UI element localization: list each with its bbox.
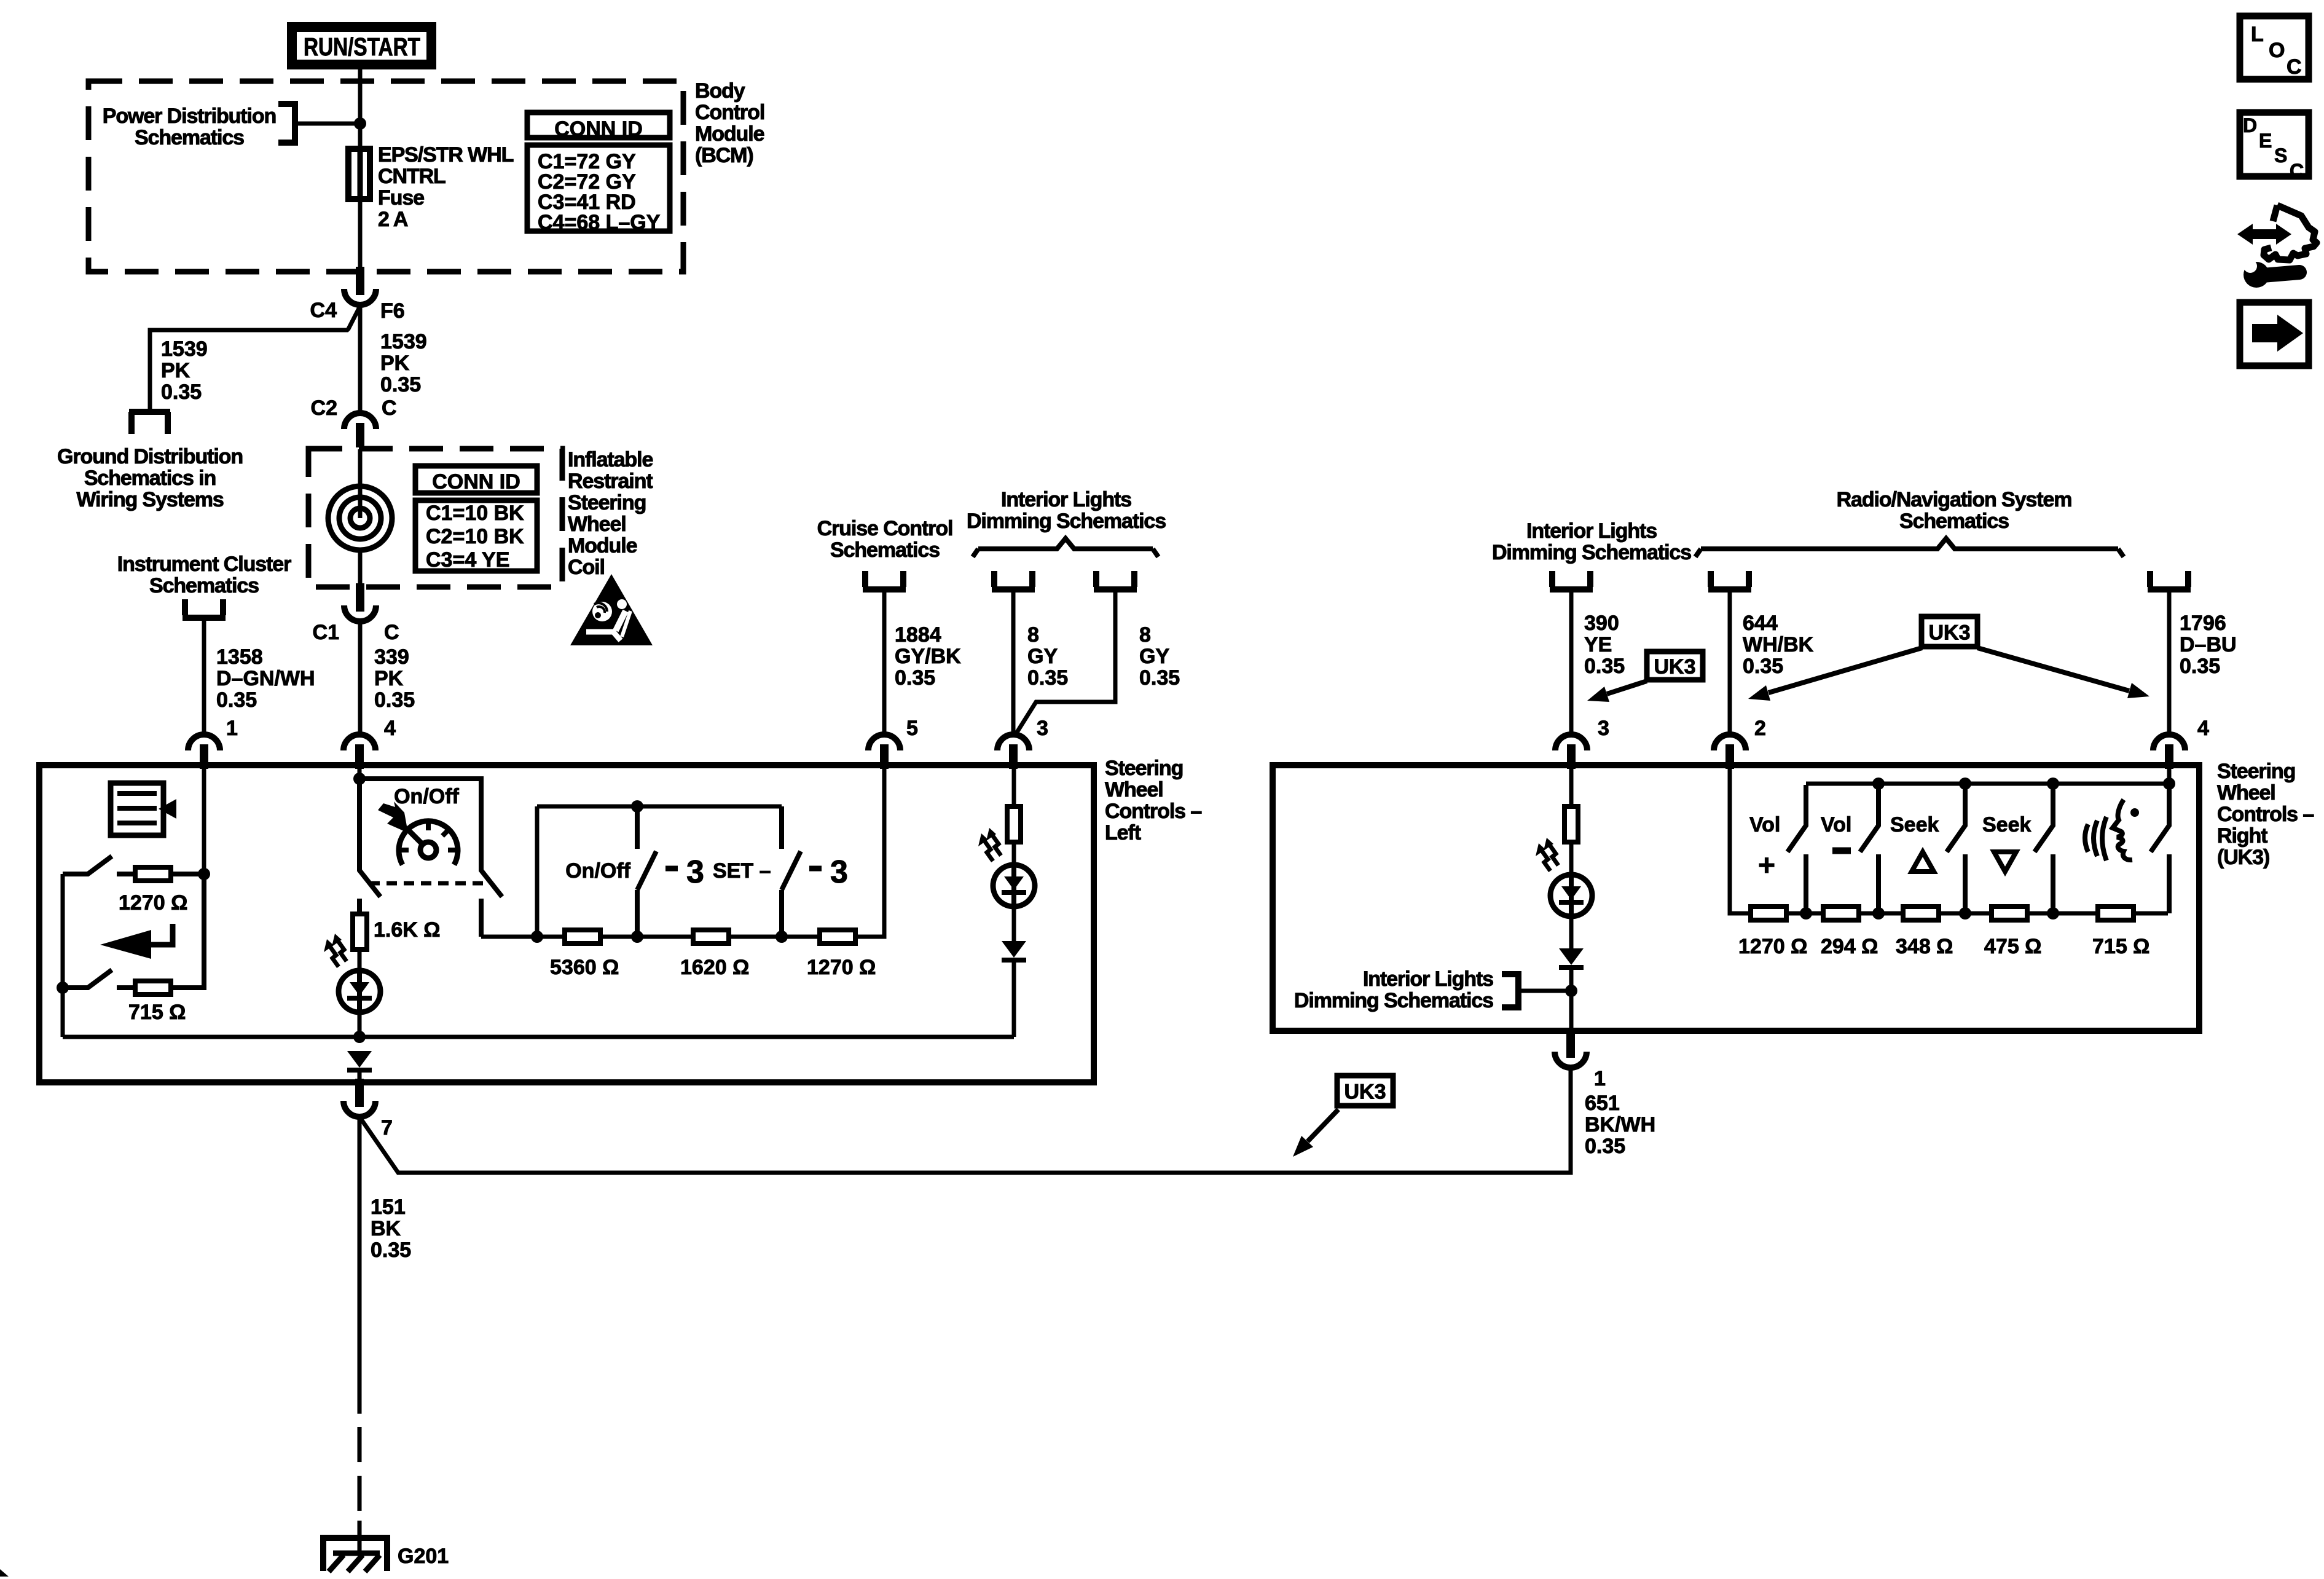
svg-text:0.35: 0.35 <box>1027 666 1068 690</box>
svg-text:(BCM): (BCM) <box>695 144 753 167</box>
resistor dimming (left box) <box>1007 806 1021 842</box>
fuse F6 EPS/STR WHL CNTRL 2A <box>348 149 370 199</box>
module box Body Control Module (BCM) dashed <box>88 81 683 272</box>
svg-text:GY/BK: GY/BK <box>895 645 961 668</box>
wire cruise bottom rail <box>481 935 562 939</box>
arrow UK3 to 651 wire <box>1308 1109 1338 1141</box>
wire connector C4 to connector C2 <box>358 305 363 415</box>
wire row to voice post <box>2136 912 2168 916</box>
junction dimming tap (right box) <box>1565 985 1577 997</box>
wire 8 GY (b) <box>1015 592 1115 735</box>
wire coil to connector C1 <box>358 550 363 589</box>
wire 5360 to 1620 <box>603 935 691 939</box>
icon diagnostic hand with arrows <box>2250 229 2279 239</box>
wire RUN/START feed into fuse <box>358 83 363 148</box>
module box Steering Wheel Controls - Right <box>1273 765 2199 1031</box>
svg-text:0.35: 0.35 <box>380 373 421 396</box>
switch assembly cruise On/Off gauge box <box>359 779 502 897</box>
connector pin 7 <box>343 1101 375 1117</box>
wire row 348-475 <box>1941 912 1990 916</box>
svg-text:CNTRL: CNTRL <box>378 165 446 188</box>
coil clockspring spiral <box>350 508 370 528</box>
wire gauge switch to resistor 1.6K <box>357 899 362 913</box>
svg-text:BK: BK <box>371 1217 401 1240</box>
wire pin3 internal (left box) <box>1012 768 1016 807</box>
wire row 1270-294 <box>1789 912 1821 916</box>
switch Vol- blade <box>1860 784 1878 852</box>
svg-text:Coil: Coil <box>568 556 605 579</box>
connector pin 4 left box <box>343 734 375 750</box>
diode (right box dimming) <box>1559 948 1584 965</box>
wire branch to ground distribution (1539 PK) <box>150 306 360 412</box>
svg-text:Wheel: Wheel <box>1105 778 1163 801</box>
svg-text:0.35: 0.35 <box>374 688 415 712</box>
svg-text:EPS/STR WHL: EPS/STR WHL <box>378 143 514 167</box>
LED backlight (right box) <box>1550 875 1592 916</box>
wire resistor row (right box) <box>1748 912 1789 916</box>
resistor 1270 ohm (right box) <box>1751 907 1786 920</box>
fork to Radio/Navigation (pin 4) <box>2150 571 2188 587</box>
svg-text:D: D <box>2243 114 2257 136</box>
svg-text:C2=10 BK: C2=10 BK <box>426 525 524 548</box>
wire switch to resistor 1270 <box>117 872 133 876</box>
svg-text:Schematics: Schematics <box>149 574 259 597</box>
callout UK3 (center) <box>1922 616 1977 647</box>
connector pin 1 right box <box>1555 1052 1587 1068</box>
wire 1796 D-BU <box>2167 592 2172 735</box>
svg-text:Schematics in: Schematics in <box>84 467 216 490</box>
wire internal bottom bus <box>63 1035 1014 1039</box>
junction pin4 branch to cruise circuit <box>353 773 366 785</box>
wire 1270 to pin5 riser <box>858 768 884 937</box>
svg-text:PK: PK <box>374 667 404 690</box>
icon LOC box <box>2240 16 2309 79</box>
left bus of page switches <box>61 874 65 1037</box>
junction Seek-up top <box>1959 778 1971 790</box>
junction row Vol+ <box>1800 907 1812 919</box>
wire gauge blade to bottom rail <box>479 899 484 937</box>
wire LED to junction <box>358 1012 362 1037</box>
wire resistor to LED (left box dimming) <box>1012 843 1016 867</box>
wire cruise loop left riser <box>535 806 540 937</box>
wire resistor 1.6K to LED <box>358 952 362 972</box>
svg-text:348 Ω: 348 Ω <box>1896 935 1953 958</box>
wire row 294-348 <box>1861 912 1901 916</box>
svg-text:C4=68 L–GY: C4=68 L–GY <box>538 211 661 234</box>
wire row 475-715 <box>2030 912 2096 916</box>
svg-text:GY: GY <box>1139 645 1169 668</box>
junction row Seek-down <box>2047 907 2059 919</box>
svg-text:L: L <box>2251 23 2264 46</box>
resistor 475 ohm <box>1992 907 2027 920</box>
power node RUN/START box <box>287 22 436 69</box>
svg-text:C: C <box>2287 55 2302 79</box>
svg-text:Vol: Vol <box>1821 813 1851 837</box>
brace over radio/navigation wires <box>1695 538 2124 557</box>
svg-text:Power Distribution: Power Distribution <box>103 104 276 128</box>
diode (left box output) <box>347 1051 372 1068</box>
wire cruise loop top rail <box>537 805 782 809</box>
wire 8 GY (a) <box>1011 592 1016 735</box>
svg-text:Vol: Vol <box>1749 813 1780 837</box>
connector pin 5 left box <box>868 734 900 750</box>
wire 390 YE <box>1569 592 1574 735</box>
wire 151 BK solid <box>358 1117 362 1379</box>
fork to Cruise Control Schematics <box>865 571 903 587</box>
wire resistor 715 to bus corner <box>173 873 204 988</box>
contact symbol On/Off switch <box>665 866 678 872</box>
module box Inflatable Restraint Steering Wheel Module Coil dashed <box>308 449 562 587</box>
svg-text:1: 1 <box>1594 1067 1606 1090</box>
switch Seek up blade <box>1947 784 1965 852</box>
resistor 5360 ohm <box>565 930 600 943</box>
arrow UK3 to 644 wire <box>1769 648 1922 693</box>
svg-text:YE: YE <box>1584 633 1612 656</box>
svg-text:Dimming Schematics: Dimming Schematics <box>967 510 1166 533</box>
svg-text:0.35: 0.35 <box>1584 655 1625 678</box>
switch Seek down blade <box>2035 784 2053 852</box>
svg-text:0.35: 0.35 <box>161 380 202 404</box>
fork to Interior Lights Dimming (left a) <box>994 571 1032 587</box>
svg-text:D–BU: D–BU <box>2180 633 2237 656</box>
svg-text:Controls –: Controls – <box>2217 803 2314 826</box>
svg-text:4: 4 <box>2197 717 2209 740</box>
wire pin4 internal (right box) <box>2167 768 2172 784</box>
svg-text:3: 3 <box>830 854 848 890</box>
resistor 1270 ohm (cruise) <box>820 930 855 943</box>
svg-text:390: 390 <box>1584 612 1619 635</box>
resistor 294 ohm <box>1823 907 1859 920</box>
svg-text:Interior Lights: Interior Lights <box>1526 519 1657 543</box>
wire 1884 GY/BK <box>882 592 887 735</box>
svg-text:Body: Body <box>695 79 745 103</box>
svg-text:3: 3 <box>1598 717 1609 740</box>
svg-text:C4: C4 <box>310 299 337 322</box>
junction Vol- top <box>1872 778 1885 790</box>
svg-text:WH/BK: WH/BK <box>1743 633 1814 656</box>
svg-text:Ground Distribution: Ground Distribution <box>57 445 243 468</box>
icon next-page arrow box <box>2240 302 2309 366</box>
svg-text:0.35: 0.35 <box>2180 655 2220 678</box>
svg-text:Module: Module <box>568 534 637 557</box>
svg-text:1620 Ω: 1620 Ω <box>680 956 749 979</box>
connector pin 3 left box <box>997 734 1029 750</box>
svg-text:644: 644 <box>1743 612 1778 635</box>
svg-text:C2: C2 <box>311 396 337 420</box>
svg-text:0.35: 0.35 <box>1139 666 1180 690</box>
svg-text:1796: 1796 <box>2180 612 2226 635</box>
svg-text:5: 5 <box>906 717 918 740</box>
svg-text:Schematics: Schematics <box>135 126 244 149</box>
svg-text:UK3: UK3 <box>1654 655 1695 679</box>
svg-text:1.6K Ω: 1.6K Ω <box>374 918 441 942</box>
resistor 348 ohm <box>1903 907 1939 920</box>
svg-text:651: 651 <box>1585 1092 1620 1115</box>
junction voice switch top <box>2163 778 2175 790</box>
table CONN ID (coil) <box>415 466 537 493</box>
svg-text:CONN ID: CONN ID <box>554 117 643 141</box>
wire 644 WH/BK <box>1728 592 1732 735</box>
svg-text:0.35: 0.35 <box>1743 655 1783 678</box>
svg-text:Dimming Schematics: Dimming Schematics <box>1492 541 1691 564</box>
fork to Instrument Cluster Schematics <box>185 599 223 615</box>
svg-text:Restraint: Restraint <box>568 470 653 493</box>
brace over interior lights dimming wires <box>973 538 1158 557</box>
contact symbol SET switch <box>809 866 822 872</box>
LED cruise indicator (left box) <box>339 971 380 1012</box>
svg-text:715 Ω: 715 Ω <box>128 1001 186 1024</box>
bracket to Interior Lights Dimming (inside right box) <box>1502 974 1518 1007</box>
connector pin 1 left box <box>188 734 220 750</box>
svg-text:0.35: 0.35 <box>1585 1135 1625 1158</box>
svg-text:Interior Lights: Interior Lights <box>1363 967 1493 991</box>
svg-text:Steering: Steering <box>568 491 646 514</box>
wire diode to bottom bus corner <box>1012 963 1016 1037</box>
icon DESC box <box>2240 112 2309 176</box>
switch page-down (left box) <box>63 970 112 988</box>
svg-text:Schematics: Schematics <box>1899 510 2009 533</box>
switch Vol+ blade <box>1788 785 1806 852</box>
icon SRS airbag warning triangle <box>570 574 653 645</box>
svg-text:G201: G201 <box>398 1545 449 1568</box>
junction row Seek-up <box>1959 907 1971 919</box>
junction row Vol- <box>1872 907 1885 919</box>
svg-text:RUN/START: RUN/START <box>304 33 420 61</box>
junction On/Off bottom <box>631 931 643 943</box>
fork to Radio/Navigation (pin 2) <box>1711 571 1749 587</box>
svg-text:O: O <box>2269 39 2285 62</box>
wire resistor to LED (right box) <box>1569 843 1574 876</box>
svg-text:8: 8 <box>1027 623 1039 647</box>
svg-text:C: C <box>384 621 399 644</box>
svg-text:On/Off: On/Off <box>565 859 630 883</box>
icon instrument cluster page list <box>111 783 163 835</box>
svg-text:Right: Right <box>2217 824 2267 848</box>
wire RUN/START to BCM box <box>358 69 363 83</box>
svg-text:294 Ω: 294 Ω <box>1821 935 1878 958</box>
svg-text:0.35: 0.35 <box>216 688 257 712</box>
svg-text:1270 Ω: 1270 Ω <box>119 891 187 915</box>
wire LED to diode (right box) <box>1569 916 1574 948</box>
switch voice blade <box>2151 784 2169 852</box>
junction On/Off switch top <box>631 800 643 813</box>
svg-text:715 Ω: 715 Ω <box>2092 935 2149 958</box>
wire fuse to connector C4 <box>358 202 363 273</box>
wire 651 BK/WH long run <box>359 1066 1571 1173</box>
resistor 1270 ohm (left box upper) <box>135 867 171 881</box>
svg-text:475 Ω: 475 Ω <box>1984 935 2041 958</box>
icon return/back arrow <box>100 930 151 959</box>
resistor 715 ohm (left box) <box>135 981 171 994</box>
wire 151 BK dashed to ground <box>358 1379 362 1534</box>
svg-text:S: S <box>2274 144 2287 167</box>
svg-text:Cruise Control: Cruise Control <box>817 517 953 540</box>
svg-text:C1: C1 <box>313 621 339 644</box>
wire 1358 D-GN/WH <box>202 620 206 735</box>
svg-text:SET –: SET – <box>713 859 771 883</box>
svg-text:1539: 1539 <box>380 330 427 353</box>
svg-text:Steering: Steering <box>1105 757 1183 780</box>
svg-text:Wiring Systems: Wiring Systems <box>76 488 224 511</box>
svg-text:Wheel: Wheel <box>568 513 626 536</box>
svg-text:Instrument Cluster: Instrument Cluster <box>117 553 291 576</box>
svg-text:PK: PK <box>161 359 190 382</box>
svg-text:Dimming Schematics: Dimming Schematics <box>1294 989 1493 1012</box>
wire pin3 internal (right box) <box>1569 768 1574 806</box>
wire junction to pin 1 <box>1569 991 1574 1028</box>
svg-text:Seek: Seek <box>1982 813 2031 837</box>
svg-text:Fuse: Fuse <box>378 186 424 210</box>
svg-text:8: 8 <box>1139 623 1151 647</box>
connector pin 2 right box <box>1714 734 1746 750</box>
svg-text:C: C <box>382 396 397 420</box>
wire pin2 internal (right box) <box>1730 768 1748 913</box>
wire 1620 to 1270 <box>731 935 817 939</box>
svg-text:151: 151 <box>371 1195 406 1219</box>
resistor 1620 ohm <box>693 930 729 943</box>
ground G201 symbol <box>358 1521 362 1553</box>
icon voice recognition face <box>2085 817 2106 860</box>
svg-text:Steering: Steering <box>2217 760 2295 783</box>
svg-text:1: 1 <box>226 717 238 740</box>
wire resistor 1270 to bus <box>173 872 204 876</box>
diode (left box dimming) <box>1002 941 1026 958</box>
switch cruise On/Off <box>635 806 640 849</box>
page corner mark <box>0 1569 9 1577</box>
svg-text:Interior Lights: Interior Lights <box>1001 488 1131 511</box>
table CONN ID (BCM) <box>527 112 670 138</box>
svg-text:On/Off: On/Off <box>394 785 459 808</box>
svg-text:Control: Control <box>695 101 764 124</box>
resistor 715 ohm (right box) <box>2098 907 2134 920</box>
wire 339 PK <box>358 621 363 735</box>
svg-text:UK3: UK3 <box>1344 1081 1386 1104</box>
arrow UK3 to 1796 wire <box>1977 648 2129 691</box>
svg-text:4: 4 <box>384 717 396 740</box>
bracket to Power Distribution Schematics <box>278 104 295 143</box>
connector pin 4 right box <box>2153 734 2185 750</box>
callout UK3 (pin 3 right) <box>1647 652 1703 680</box>
svg-text:BK/WH: BK/WH <box>1585 1113 1655 1136</box>
svg-text:1358: 1358 <box>216 645 263 669</box>
wire pin1 internal bus <box>202 768 206 874</box>
fork to Ground Distribution Schematics <box>132 412 168 434</box>
svg-text:5360 Ω: 5360 Ω <box>550 956 619 979</box>
svg-text:Radio/Navigation System: Radio/Navigation System <box>1837 488 2072 511</box>
wire switch to resistor 715 <box>117 985 133 990</box>
connector pin 3 right box <box>1555 734 1587 750</box>
fork to Interior Lights Dimming (left b) <box>1096 571 1134 587</box>
junction SET bottom <box>775 931 788 943</box>
wire diode to junction (right box) <box>1569 970 1574 991</box>
svg-text:3: 3 <box>686 854 704 890</box>
junction Seek-down top <box>2047 778 2059 790</box>
svg-text:1270 Ω: 1270 Ω <box>807 956 876 979</box>
svg-text:F6: F6 <box>380 299 405 323</box>
wire switch top rail (right box) <box>1806 782 2169 786</box>
LED backlight (left box) <box>993 865 1035 907</box>
switch page-up (left box) <box>63 856 112 874</box>
resistor 1.6K ohm <box>353 914 367 950</box>
svg-text:Schematics: Schematics <box>830 538 940 562</box>
svg-text:UK3: UK3 <box>1928 621 1970 645</box>
svg-text:1270 Ω: 1270 Ω <box>1738 935 1807 958</box>
svg-text:D–GN/WH: D–GN/WH <box>216 667 315 690</box>
svg-text:1884: 1884 <box>895 623 941 647</box>
svg-text:C1=10 BK: C1=10 BK <box>426 502 524 525</box>
svg-text:PK: PK <box>380 352 410 375</box>
wire pin4 internal <box>358 768 362 779</box>
svg-text:1539: 1539 <box>161 337 208 361</box>
wire diode to box edge <box>358 1073 362 1083</box>
fork to Interior Lights Dimming (right) <box>1552 571 1590 587</box>
svg-text:Left: Left <box>1105 821 1141 845</box>
svg-text:7: 7 <box>381 1116 393 1140</box>
wire LED to diode (left box dimming) <box>1012 906 1016 941</box>
wire into clockspring coil <box>358 449 363 518</box>
junction resistor 1270 / pin1 bus <box>198 868 210 880</box>
junction LED chain / bottom bus <box>353 1031 366 1043</box>
svg-text:0.35: 0.35 <box>895 666 935 690</box>
junction on RUN/START feed <box>354 117 366 130</box>
resistor dimming (right box) <box>1564 806 1578 842</box>
junction lower switch on left bus <box>57 982 69 994</box>
callout UK3 (bottom) <box>1337 1076 1393 1106</box>
svg-text:Module: Module <box>695 122 764 146</box>
svg-text:339: 339 <box>374 645 409 669</box>
svg-text:2 A: 2 A <box>378 208 408 231</box>
connector C4/F6 <box>344 289 376 305</box>
svg-text:Seek: Seek <box>1890 813 1939 837</box>
svg-text:Wheel: Wheel <box>2217 781 2275 805</box>
switch cruise SET- <box>779 806 784 849</box>
svg-text:+: + <box>1758 849 1775 882</box>
svg-text:GY: GY <box>1027 645 1058 668</box>
module box Steering Wheel Controls - Left <box>39 765 1094 1082</box>
svg-text:Controls –: Controls – <box>1105 800 1201 823</box>
svg-text:2: 2 <box>1754 717 1766 740</box>
connector C2/C <box>344 413 376 429</box>
svg-text:0.35: 0.35 <box>371 1238 411 1262</box>
arrow UK3 to 390 wire <box>1607 681 1647 694</box>
svg-text:C3=4 YE: C3=4 YE <box>426 548 509 572</box>
svg-text:C: C <box>2290 160 2304 182</box>
svg-text:3: 3 <box>1037 717 1048 740</box>
svg-text:CONN ID: CONN ID <box>432 470 520 494</box>
svg-text:Inflatable: Inflatable <box>568 448 653 471</box>
svg-text:E: E <box>2259 130 2272 152</box>
icon cruise speedometer gauge <box>399 821 458 865</box>
svg-text:(UK3): (UK3) <box>2217 846 2269 869</box>
junction cruise rail / riser <box>531 931 543 943</box>
connector C1/C <box>344 605 376 621</box>
